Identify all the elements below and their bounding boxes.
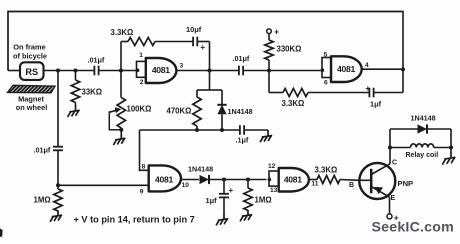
svg-text:4081: 4081 <box>284 174 302 184</box>
svg-text:of bicycle: of bicycle <box>13 51 47 60</box>
wire gate U1b output <box>362 68 403 70</box>
node D1 bottom <box>220 128 224 132</box>
svg-text:5: 5 <box>324 51 328 58</box>
wire osc2 right vertical <box>402 11 404 93</box>
node relay right junction <box>449 146 453 150</box>
op gate U1a 4081 <box>136 58 177 83</box>
wire collector up <box>389 129 391 164</box>
wire gate U1d output <box>309 179 317 181</box>
capacitor C5 .1uf <box>236 125 249 144</box>
svg-text:4: 4 <box>365 62 369 69</box>
transistor Q1 PNP <box>359 163 395 199</box>
svg-text:+: + <box>200 43 205 52</box>
node junction osc1 input <box>119 69 123 73</box>
op gate U1c 4081 <box>149 165 181 191</box>
wire C4 to right vertical <box>374 92 403 94</box>
wire C7 to bottom node <box>57 151 59 186</box>
svg-text:+ V to pin 14, return to pin 7: + V to pin 14, return to pin 7 <box>74 214 195 224</box>
node relay left junction <box>388 146 392 150</box>
reed switch RS <box>20 62 44 80</box>
wire top feedback from gate U1b output to reed switch <box>8 11 403 13</box>
svg-text:Relay coil: Relay coil <box>406 152 439 159</box>
svg-text:1N4148: 1N4148 <box>228 107 253 116</box>
wire C2 to right vertical <box>198 41 210 43</box>
wire C3 to gate U1b input <box>243 70 322 72</box>
svg-text:330KΩ: 330KΩ <box>277 45 302 54</box>
wire bottom node to gate U1c pin9 <box>58 184 149 186</box>
svg-text:6: 6 <box>324 79 328 86</box>
svg-text:+: + <box>365 84 370 93</box>
svg-text:2: 2 <box>140 79 144 86</box>
op gate U1d 4081 <box>268 168 309 192</box>
svg-text:100KΩ: 100KΩ <box>127 105 152 114</box>
svg-text:33KΩ: 33KΩ <box>82 88 103 97</box>
capacitor C2 10uf polarized <box>186 25 205 52</box>
node junction 33K <box>74 69 78 73</box>
wire to R3 <box>121 41 128 43</box>
text On frame of bicycle <box>13 42 47 60</box>
node 470K bottom <box>195 128 199 132</box>
svg-text:SeekIC.com: SeekIC.com <box>372 220 454 236</box>
wire gate U1c output to D2 <box>181 179 199 181</box>
resistor R5 470K <box>167 90 202 130</box>
ground below C6 <box>216 215 227 225</box>
wire gate U1a output <box>176 70 238 72</box>
svg-text:.1μf: .1μf <box>236 136 249 145</box>
svg-text:4081: 4081 <box>337 64 355 74</box>
potentiometer R4 100K <box>109 71 151 135</box>
svg-text:12: 12 <box>268 163 276 170</box>
svg-text:4081: 4081 <box>152 65 170 75</box>
svg-text:1μf: 1μf <box>370 99 382 108</box>
node pot wiper junction <box>119 128 123 132</box>
wire divider bottom <box>140 129 240 131</box>
svg-text:3.3KΩ: 3.3KΩ <box>282 99 305 108</box>
ground right of C5 <box>260 131 271 141</box>
relay coil L1 <box>390 144 451 159</box>
node C6 junction <box>222 178 226 182</box>
node osc2 input junction <box>267 69 271 73</box>
text Magnet on wheel <box>16 94 48 112</box>
scan mark bottom left corner <box>0 229 3 238</box>
capacitor C6 1uf polarized <box>206 180 234 215</box>
resistor R8 1M <box>244 180 272 211</box>
svg-text:1MΩ: 1MΩ <box>34 196 51 205</box>
capacitor C7 .01uf <box>34 145 64 154</box>
ground below pot <box>114 134 125 144</box>
resistor R7 3.3K <box>282 89 309 109</box>
svg-text:+: + <box>274 26 279 36</box>
wire R9 to base <box>340 179 359 182</box>
wire osc1 feedback up <box>120 42 122 71</box>
wire R3 to C2 <box>155 41 193 43</box>
supply terminal + emitter <box>387 212 399 222</box>
diode D2 1N4148 <box>188 165 213 185</box>
svg-text:13: 13 <box>270 187 278 194</box>
svg-text:E: E <box>390 195 395 202</box>
wire R7 to C4 <box>308 92 369 94</box>
svg-text:9: 9 <box>140 189 144 196</box>
wire relay top <box>390 128 418 130</box>
ground below R2 <box>50 211 61 221</box>
wire left vertical to reed switch <box>7 11 9 71</box>
svg-text:10μf: 10μf <box>186 25 202 34</box>
svg-text:1: 1 <box>139 52 143 59</box>
wire emitter down <box>389 197 390 198</box>
ground below R1 <box>68 106 79 116</box>
svg-text:3.3KΩ: 3.3KΩ <box>315 166 338 175</box>
svg-text:4081: 4081 <box>155 174 173 184</box>
svg-text:470KΩ: 470KΩ <box>167 107 192 116</box>
svg-text:.01μf: .01μf <box>233 54 250 63</box>
magnet bar symbol <box>8 85 55 93</box>
svg-text:1μf: 1μf <box>206 196 218 205</box>
svg-text:3.3KΩ: 3.3KΩ <box>111 28 134 37</box>
svg-text:PNP: PNP <box>398 179 414 188</box>
svg-text:.01μf: .01μf <box>88 55 105 64</box>
node junction left timing <box>56 69 60 73</box>
supply terminal + for R6 <box>267 26 279 36</box>
node bottom-left junction <box>56 183 60 187</box>
svg-text:3: 3 <box>180 63 184 70</box>
svg-text:8: 8 <box>142 163 146 170</box>
wire C5 to ground <box>244 129 268 131</box>
node gate U1b output junction <box>401 67 405 71</box>
svg-text:+: + <box>228 186 233 195</box>
svg-text:on wheel: on wheel <box>16 103 48 112</box>
svg-text:On frame: On frame <box>13 42 45 51</box>
wire RS to C1 <box>44 70 95 72</box>
node R8 junction <box>246 178 250 182</box>
svg-text:RS: RS <box>25 67 38 77</box>
diode D3 1N4148 relay <box>411 114 436 134</box>
svg-text:1N4148: 1N4148 <box>188 165 213 174</box>
svg-text:.01μf: .01μf <box>34 145 51 154</box>
wire osc1 right vertical <box>209 42 211 91</box>
resistor R6 330K pullup <box>265 34 302 71</box>
capacitor C4 1uf polarized <box>365 84 381 108</box>
wire D2 to gate U1d input <box>210 179 267 181</box>
diode D1 1N4148 <box>217 90 252 130</box>
node osc1 output junction <box>208 69 212 73</box>
wire divider top bracket <box>197 89 210 91</box>
resistor R2 1M <box>34 185 63 211</box>
wire left vertical to C7 <box>57 71 59 147</box>
svg-text:C: C <box>392 160 397 167</box>
resistor R1 33K <box>71 71 102 107</box>
capacitor C3 .01uf <box>233 54 250 75</box>
capacitor C1 .01uf <box>88 55 105 75</box>
ground below R8 <box>240 211 251 221</box>
wire into RS <box>8 70 20 72</box>
svg-text:B: B <box>349 182 354 189</box>
svg-text:1MΩ: 1MΩ <box>255 196 272 205</box>
wire down to gate U1c pin8 <box>140 130 150 170</box>
resistor R3 3.3K <box>111 28 156 45</box>
svg-text:11: 11 <box>311 181 318 188</box>
wire osc2 feedback down <box>268 71 270 93</box>
ground relay <box>443 153 455 164</box>
wire C1 to gate U1a input <box>99 70 137 72</box>
svg-text:1N4148: 1N4148 <box>411 114 436 123</box>
svg-text:10: 10 <box>182 182 190 189</box>
resistor R9 3.3K <box>315 166 341 184</box>
op gate U1b 4081 <box>321 56 362 82</box>
wire relay right vertical <box>450 129 452 153</box>
